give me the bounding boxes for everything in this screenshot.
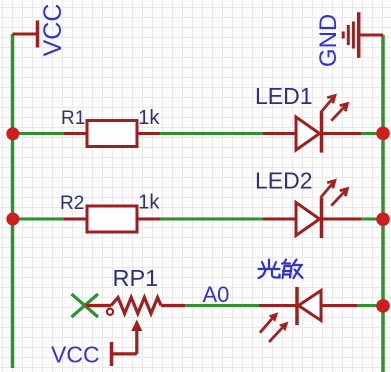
svg-text:VCC: VCC bbox=[39, 4, 67, 57]
svg-text:1k: 1k bbox=[138, 192, 160, 214]
svg-text:R2: R2 bbox=[60, 193, 84, 214]
svg-text:R1: R1 bbox=[61, 108, 85, 129]
svg-text:VCC: VCC bbox=[51, 342, 100, 368]
svg-text:A0: A0 bbox=[203, 282, 230, 307]
svg-text:RP1: RP1 bbox=[113, 265, 159, 291]
svg-text:LED2: LED2 bbox=[255, 168, 313, 194]
svg-text:1k: 1k bbox=[138, 107, 160, 129]
svg-text:GND: GND bbox=[315, 14, 342, 67]
svg-text:LED1: LED1 bbox=[255, 83, 313, 109]
